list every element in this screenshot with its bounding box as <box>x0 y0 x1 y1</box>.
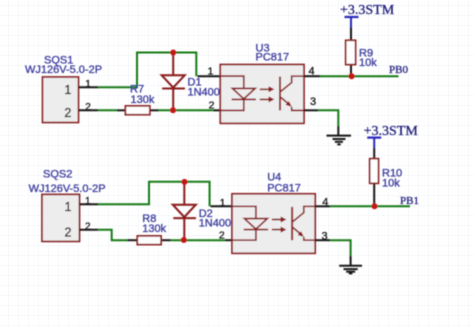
connector SQS2 body <box>42 194 80 241</box>
wire SQS1.1 to U3.1 <box>98 53 196 88</box>
svg-text:+3.3STM: +3.3STM <box>340 3 395 18</box>
diode D2 <box>173 182 196 240</box>
svg-text:2: 2 <box>85 221 91 232</box>
U3 coupling arrows <box>260 86 275 102</box>
U4 pin 2 stub <box>225 239 232 241</box>
power port +3.3STM (2) <box>367 138 381 148</box>
wire SQS1.2 to R7 <box>98 109 117 111</box>
svg-text:10k: 10k <box>359 57 377 69</box>
svg-text:WJ126V-5.0-2P: WJ126V-5.0-2P <box>25 64 102 76</box>
svg-text:PB1: PB1 <box>400 195 419 207</box>
optocoupler U4 body <box>232 194 315 254</box>
U4 coupling arrows <box>272 217 287 233</box>
junction D1 cathode <box>170 107 176 113</box>
svg-text:2: 2 <box>64 106 71 120</box>
svg-text:PC817: PC817 <box>267 183 301 195</box>
resistor R8 <box>128 236 171 245</box>
junction D1 anode <box>170 50 176 56</box>
svg-text:130k: 130k <box>142 223 166 235</box>
ground GND (2) <box>339 256 362 273</box>
junction node PB1 <box>372 203 378 209</box>
svg-text:PC817: PC817 <box>256 52 290 64</box>
svg-text:1: 1 <box>85 79 91 90</box>
resistor R7 <box>117 106 159 115</box>
U3 pin 4 stub <box>304 75 320 77</box>
svg-text:+3.3STM: +3.3STM <box>364 124 419 139</box>
wire U4.4 to PB1 <box>330 205 410 207</box>
wire SQS2.2 to R8 <box>98 230 128 241</box>
svg-text:2: 2 <box>209 100 215 112</box>
svg-text:1: 1 <box>85 196 91 207</box>
U4 phototransistor <box>292 206 315 240</box>
power port +3.3STM (1) <box>345 17 359 28</box>
svg-text:1: 1 <box>207 66 213 78</box>
junction D2 cathode <box>181 237 187 243</box>
svg-text:WJ126V-5.0-2P: WJ126V-5.0-2P <box>29 183 106 195</box>
optocoupler U3 body <box>220 65 304 124</box>
svg-text:130k: 130k <box>131 94 155 106</box>
svg-text:1: 1 <box>220 197 226 209</box>
R9 bottom pin <box>350 65 352 77</box>
connector SQS1 body <box>43 77 79 123</box>
diode D1 <box>162 53 185 110</box>
svg-text:10k: 10k <box>382 177 400 189</box>
SQS1 pin 1 <box>64 79 98 97</box>
U4 internal LED <box>232 206 268 240</box>
U4 pin 3 stub <box>315 239 330 241</box>
U4 pin 4 stub <box>315 205 330 207</box>
U4 pin 1 stub <box>211 205 233 207</box>
svg-text:2: 2 <box>219 230 225 242</box>
SQS2 pin 1 <box>65 196 98 214</box>
wire SQS2.1 to U4.1 <box>98 182 210 207</box>
junction node PB0 <box>349 73 355 79</box>
SQS1 pin 2 <box>64 102 98 120</box>
svg-text:2: 2 <box>65 226 72 240</box>
SQS2 pin 2 <box>65 221 98 239</box>
wire U4.3 to ground <box>330 240 351 256</box>
svg-text:2: 2 <box>85 102 91 113</box>
U3 internal LED <box>220 76 256 110</box>
wire R7 to U3.2 <box>159 109 214 111</box>
R10 bottom pin <box>373 183 375 206</box>
resistor R9 <box>346 28 356 65</box>
U3 phototransistor <box>280 76 304 110</box>
wire U3.4 to PB0 <box>320 75 399 77</box>
wire R8 to U4.2 <box>171 239 226 241</box>
junction D2 anode <box>182 179 188 185</box>
ground GND (1) <box>327 126 352 144</box>
U3 pin 3 stub <box>304 109 318 111</box>
U3 pin 2 stub <box>213 109 220 111</box>
svg-text:SQS2: SQS2 <box>43 169 72 181</box>
svg-text:PB0: PB0 <box>389 64 408 76</box>
svg-text:1: 1 <box>64 83 71 97</box>
resistor R10 <box>370 148 379 183</box>
svg-text:3: 3 <box>310 96 316 108</box>
U3 pin 1 stub <box>198 75 221 77</box>
svg-text:1: 1 <box>65 200 72 214</box>
wire U3.3 to ground <box>318 110 338 126</box>
